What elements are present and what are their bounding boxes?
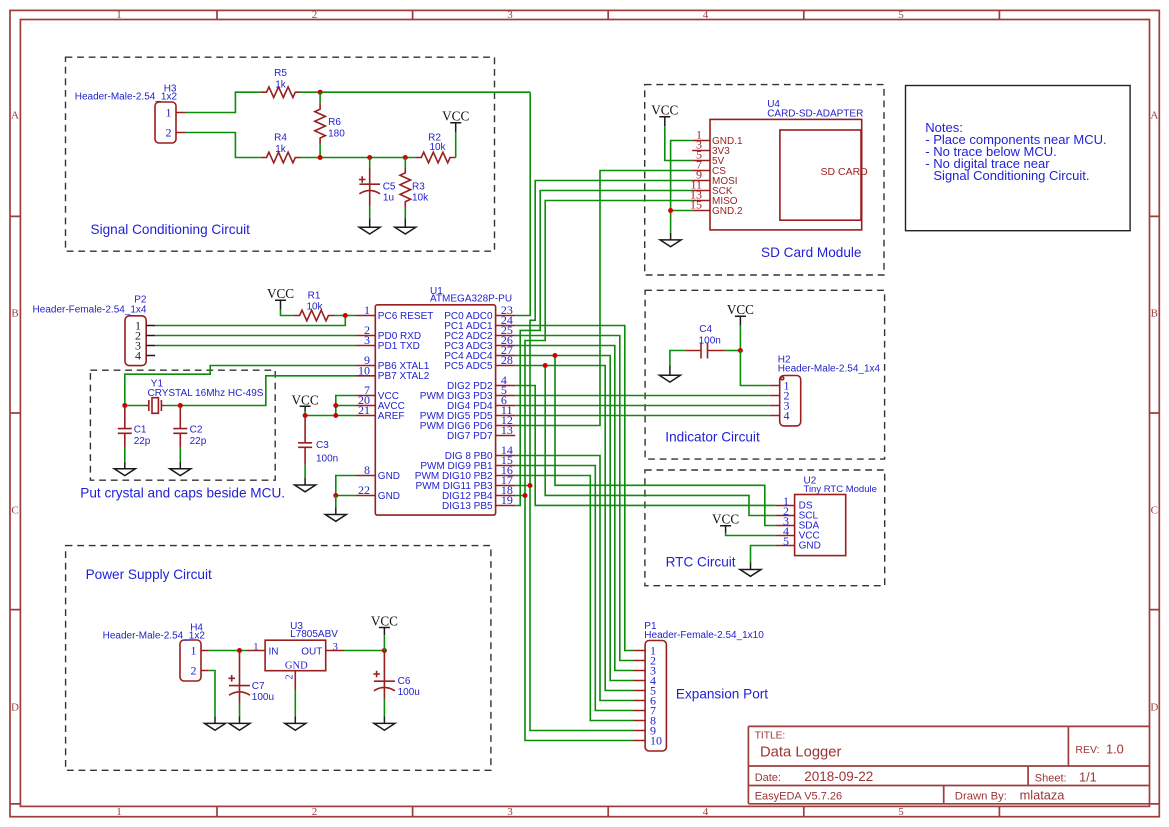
svg-text:4: 4 (135, 349, 141, 363)
svg-text:GND: GND (378, 491, 400, 502)
svg-text:13: 13 (501, 423, 513, 437)
svg-text:Tiny RTC Module: Tiny RTC Module (804, 484, 877, 495)
BOXES (66, 57, 885, 770)
power VCC (signal) (442, 109, 469, 133)
svg-text:C4: C4 (699, 324, 712, 335)
svg-text:SD CARD: SD CARD (821, 166, 869, 178)
sd card dashed box (645, 85, 884, 275)
svg-text:1/1: 1/1 (1079, 770, 1097, 785)
svg-text:22p: 22p (134, 436, 151, 447)
wire C2 to ground (179, 447, 181, 462)
wire VCC stem (383, 635, 385, 650)
svg-text:3: 3 (507, 9, 513, 21)
wire GND down (335, 496, 337, 508)
NOTES (906, 86, 1131, 231)
wire R3 to ground (404, 207, 406, 218)
svg-text:C2: C2 (190, 425, 203, 436)
ground (C1) (114, 462, 135, 476)
node R3 junction (403, 155, 408, 160)
svg-text:1k: 1k (275, 79, 287, 90)
svg-text:RTC Circuit: RTC Circuit (666, 554, 736, 569)
svg-text:1u: 1u (383, 193, 394, 204)
wire VCC to R1 (281, 310, 295, 316)
svg-text:10k: 10k (306, 301, 323, 312)
wire H4 pin2 to ground (209, 671, 215, 717)
svg-text:10: 10 (650, 734, 662, 748)
MCUAREA (33, 286, 516, 522)
svg-text:8: 8 (364, 463, 370, 477)
capacitor C7 (228, 651, 274, 704)
node crystal right junction (178, 403, 183, 408)
indicator dashed box (645, 290, 885, 459)
svg-text:AREF: AREF (378, 411, 405, 422)
svg-text:1: 1 (191, 644, 197, 658)
ground (C5) (359, 218, 380, 234)
RTC (712, 476, 877, 577)
svg-text:Header-Male-2.54_1x4: Header-Male-2.54_1x4 (778, 363, 881, 374)
node R5-R6 junction (318, 90, 323, 95)
resistor R6 (315, 92, 345, 157)
TITLEBLOCK (748, 726, 1149, 803)
notes box (906, 86, 1131, 231)
wire ADC2 to P1 pin2 (515, 336, 633, 661)
power VCC (RTC) (712, 512, 739, 533)
wire C3 to ground (304, 465, 306, 478)
svg-text:C5: C5 (383, 182, 396, 193)
sd adapter U4 (690, 99, 868, 230)
svg-text:2: 2 (166, 126, 172, 140)
border row ticks left (10, 216, 20, 804)
svg-text:R3: R3 (412, 181, 425, 192)
wire U3 OUT to VCC node (344, 650, 384, 652)
ground (C4) (659, 365, 680, 382)
svg-text:B: B (1151, 308, 1158, 320)
ground (RTC) (740, 563, 761, 577)
crystal dashed box (90, 370, 275, 480)
capacitor C1 (118, 406, 151, 448)
wire bottom rail (300, 157, 416, 159)
power VCC (MCU) (292, 392, 319, 411)
svg-text:3: 3 (333, 642, 338, 653)
svg-text:Sheet:: Sheet: (1035, 773, 1067, 785)
svg-text:R4: R4 (274, 133, 287, 144)
wire CS sd to mcu pin12 (515, 171, 692, 426)
node C6 junction (382, 648, 387, 653)
svg-text:VCC: VCC (267, 286, 294, 301)
node AREF junction (333, 413, 338, 418)
ground (C7) (229, 716, 250, 730)
resistor R3 (400, 158, 429, 208)
node VCC stem junction (303, 413, 308, 418)
wire C1 to ground (124, 447, 126, 462)
svg-text:100n: 100n (316, 454, 338, 465)
node C4-VCC junction (738, 348, 743, 353)
svg-text:Drawn By:: Drawn By: (955, 790, 1007, 802)
power VCC (output) (371, 613, 398, 635)
wire C5 to ground (369, 206, 371, 218)
svg-text:PD1 TXD: PD1 TXD (378, 341, 420, 352)
border column ticks bottom (217, 806, 999, 816)
svg-text:15: 15 (690, 198, 702, 212)
svg-text:2: 2 (312, 806, 318, 818)
svg-text:2018-09-22: 2018-09-22 (804, 769, 873, 784)
wire DIG2 to RTC DS (515, 386, 776, 506)
svg-text:Header-Female-2.54_1x10: Header-Female-2.54_1x10 (644, 630, 764, 641)
rtc module U2 (776, 476, 877, 556)
wire DIG3 to H2 pin2 (515, 395, 770, 397)
svg-text:5: 5 (898, 9, 904, 21)
svg-text:1: 1 (116, 806, 122, 818)
node AVCC junction (333, 403, 338, 408)
crystal Y1 (125, 379, 264, 414)
ground (H4) (205, 716, 226, 730)
wire MCU XTAL2 to crystal (180, 376, 355, 406)
svg-text:5: 5 (783, 534, 789, 548)
svg-text:22: 22 (358, 483, 370, 497)
svg-text:GND: GND (285, 660, 308, 671)
header P1 (634, 621, 765, 751)
wire GND.1 to GND.2 and ground (671, 141, 693, 233)
svg-text:100u: 100u (398, 687, 420, 698)
wire C6 to ground (383, 699, 385, 717)
svg-text:Signal Conditioning Circuit: Signal Conditioning Circuit (91, 222, 251, 237)
svg-text:3: 3 (364, 333, 370, 347)
wire ADC5 to P1 pin5 and RTC SCL (515, 366, 776, 691)
BUS (515, 171, 776, 741)
node C5 junction (367, 155, 372, 160)
svg-text:C1: C1 (134, 425, 147, 436)
header H3 (75, 83, 185, 143)
svg-text:B: B (11, 308, 18, 320)
svg-text:PC6 RESET: PC6 RESET (378, 311, 434, 322)
svg-text:2: 2 (312, 9, 318, 21)
wire ADC4 to P1 pin4 and RTC SDA (515, 356, 776, 681)
svg-text:5: 5 (898, 806, 904, 818)
wire SCK sd to mcu (515, 191, 692, 506)
svg-text:GND: GND (799, 540, 821, 551)
svg-text:Header-Male-2.54_1x2: Header-Male-2.54_1x2 (75, 91, 178, 102)
svg-text:R5: R5 (274, 68, 287, 79)
resistor R5 (261, 68, 301, 97)
node C7 junction (237, 648, 242, 653)
svg-text:22p: 22p (190, 436, 207, 447)
capacitor C2 (173, 406, 206, 448)
svg-text:4: 4 (703, 9, 709, 21)
mcu U1 (356, 286, 516, 515)
wire P2 pin2 to MCU RXD (155, 335, 356, 337)
wire VCC to 5V pin (665, 126, 692, 160)
svg-text:VCC: VCC (292, 392, 319, 407)
wire MCU GND tie (336, 476, 356, 496)
svg-text:2: 2 (191, 664, 197, 678)
wire MOSI sd to mcu and P1 (515, 181, 692, 731)
ground (C6) (374, 716, 395, 730)
svg-text:Header-Male-2.54_1x2: Header-Male-2.54_1x2 (103, 631, 206, 642)
svg-text:VCC: VCC (442, 109, 469, 124)
node GND junction (333, 493, 338, 498)
svg-text:Header-Female-2.54_1x4: Header-Female-2.54_1x4 (33, 305, 147, 316)
svg-text:Put crystal and caps beside MC: Put crystal and caps beside MCU. (80, 485, 285, 500)
svg-text:Expansion Port: Expansion Port (676, 686, 768, 701)
svg-text:10k: 10k (412, 193, 429, 204)
node GND.2 junction (668, 208, 673, 213)
wire VCC to RTC pin4 (726, 533, 776, 536)
wire MISO sd to mcu and P1 (515, 201, 692, 741)
svg-text:2: 2 (285, 674, 296, 679)
svg-text:PB7 XTAL2: PB7 XTAL2 (378, 371, 430, 382)
svg-text:Indicator Circuit: Indicator Circuit (665, 430, 760, 445)
signal conditioning dashed box (66, 57, 495, 251)
wire H3 pin2 to R4 (185, 133, 261, 158)
wire VCC node to H2 pin1 (740, 351, 770, 386)
wire U3 GND to ground (294, 690, 296, 717)
wire R1 to MCU pin1 (334, 315, 356, 317)
node SDA junction (553, 353, 558, 358)
wire VCC down to C4 node (739, 326, 741, 351)
wire DIG10 to P1 pin8 (515, 476, 633, 721)
wire DIG5 to H2 pin4 (515, 415, 770, 417)
svg-text:R6: R6 (328, 117, 341, 128)
svg-text:C7: C7 (252, 681, 265, 692)
power VCC (indicator) (727, 302, 754, 326)
INDICATOR (659, 302, 880, 426)
SIGNAL (75, 68, 530, 316)
svg-text:10: 10 (358, 363, 370, 377)
ground (R3) (395, 218, 416, 234)
capacitor C3 (298, 416, 338, 465)
POWER (103, 613, 420, 730)
wire RTC GND to ground (751, 546, 776, 563)
svg-text:DIG13 PB5: DIG13 PB5 (442, 501, 493, 512)
svg-text:19: 19 (501, 493, 513, 507)
resistor R4 (261, 133, 301, 163)
svg-text:100u: 100u (252, 692, 274, 703)
header H4 (103, 622, 209, 681)
svg-text:TITLE:: TITLE: (755, 731, 786, 742)
wire DIG4 to H2 pin3 (515, 405, 770, 407)
node R4-R6 junction (318, 155, 323, 160)
svg-text:Date:: Date: (755, 772, 781, 784)
svg-text:Signal Conditioning Circuit.: Signal Conditioning Circuit. (933, 168, 1089, 183)
svg-text:Data Logger: Data Logger (760, 744, 842, 760)
wire MCU VCC/AVCC tie (336, 396, 356, 416)
resistor R2 (416, 132, 456, 163)
svg-text:1: 1 (166, 106, 172, 120)
svg-text:10k: 10k (429, 142, 446, 153)
resistor R1 (294, 290, 334, 321)
border row ticks right (1150, 216, 1160, 804)
svg-text:100n: 100n (699, 335, 721, 346)
power supply dashed box (66, 546, 491, 771)
capacitor C6 (373, 651, 420, 699)
svg-text:GND.2: GND.2 (712, 206, 743, 217)
wire H3 pin1 to R5 (185, 92, 261, 112)
header P2 (33, 294, 156, 365)
ground (SD) (660, 233, 681, 247)
svg-text:C: C (11, 505, 18, 517)
ground (MCU) (325, 508, 346, 522)
svg-text:PC5 ADC5: PC5 ADC5 (444, 361, 493, 372)
svg-text:REV:: REV: (1075, 744, 1099, 756)
svg-text:VCC: VCC (651, 103, 678, 118)
node MISO junction (523, 493, 528, 498)
wire ADC3 to P1 pin3 (515, 346, 633, 671)
svg-text:EasyEDA V5.7.26: EasyEDA V5.7.26 (755, 790, 842, 802)
wire P2 pin3 to MCU TXD (155, 345, 356, 347)
node reset junction (343, 313, 348, 318)
svg-text:3: 3 (507, 806, 513, 818)
wire VCC to AREF row (305, 412, 356, 416)
wire H4 pin1 to U3 IN (209, 650, 247, 652)
ground (C3) (295, 478, 316, 492)
svg-text:OUT: OUT (301, 646, 322, 657)
wire C7 to ground (239, 703, 241, 716)
svg-text:CRYSTAL 16Mhz HC-49S: CRYSTAL 16Mhz HC-49S (148, 388, 264, 399)
svg-text:4: 4 (784, 409, 790, 423)
header H2 (770, 355, 881, 426)
wire top rail down to MCU pin23 (515, 92, 530, 315)
capacitor C5 (359, 158, 396, 207)
EXPANSION (634, 621, 765, 751)
wire DIG8 to P1 pin6 (515, 456, 633, 701)
svg-text:CARD-SD-ADAPTER: CARD-SD-ADAPTER (767, 108, 863, 119)
svg-text:1: 1 (364, 303, 370, 317)
svg-text:GND: GND (378, 471, 400, 482)
power VCC (SD) (651, 103, 678, 127)
svg-text:mlataza: mlataza (1020, 788, 1066, 803)
svg-text:ATMEGA328P-PU: ATMEGA328P-PU (430, 294, 512, 305)
rtc dashed box (645, 470, 885, 586)
title block grid (748, 726, 1149, 803)
svg-text:4: 4 (703, 806, 709, 818)
svg-text:A: A (11, 110, 19, 122)
wire MCU XTAL1 to crystal (125, 366, 356, 406)
svg-text:VCC: VCC (371, 613, 398, 628)
SDCARD (651, 99, 868, 247)
wire R2 to VCC (455, 132, 457, 157)
svg-text:VCC: VCC (712, 512, 739, 527)
wire P2 pin1 to reset node (155, 316, 345, 326)
wire DIG9 to P1 pin7 (515, 466, 633, 711)
svg-text:C: C (1151, 505, 1158, 517)
svg-text:SD Card Module: SD Card Module (761, 245, 862, 260)
ground (C2) (170, 462, 191, 476)
svg-text:180: 180 (328, 129, 345, 140)
svg-text:28: 28 (501, 353, 513, 367)
capacitor C4 (670, 324, 741, 365)
svg-text:1.0: 1.0 (1106, 741, 1124, 756)
border column ticks top (217, 10, 999, 19)
wire R5 to top rail (300, 91, 530, 93)
svg-text:21: 21 (358, 403, 370, 417)
svg-text:Power Supply Circuit: Power Supply Circuit (86, 567, 212, 582)
svg-text:VCC: VCC (727, 302, 754, 317)
regulator U3 (247, 621, 345, 690)
svg-text:C3: C3 (316, 440, 329, 451)
ground (U3) (285, 716, 306, 730)
node MOSI junction (528, 483, 533, 488)
svg-text:IN: IN (269, 646, 279, 657)
svg-text:D: D (11, 702, 19, 714)
node SCL junction (543, 363, 548, 368)
node crystal left junction (122, 403, 127, 408)
svg-text:1k: 1k (275, 144, 287, 155)
svg-text:D: D (1150, 702, 1158, 714)
svg-text:1: 1 (253, 642, 258, 653)
svg-text:C6: C6 (398, 676, 411, 687)
svg-text:A: A (1150, 110, 1158, 122)
svg-text:L7805ABV: L7805ABV (290, 629, 338, 640)
wire ADC1 to P1 pin1 (515, 326, 633, 651)
power VCC (R1) (267, 286, 294, 310)
svg-text:R1: R1 (308, 290, 321, 301)
svg-text:DIG7 PD7: DIG7 PD7 (447, 431, 493, 442)
svg-text:1: 1 (116, 9, 122, 21)
